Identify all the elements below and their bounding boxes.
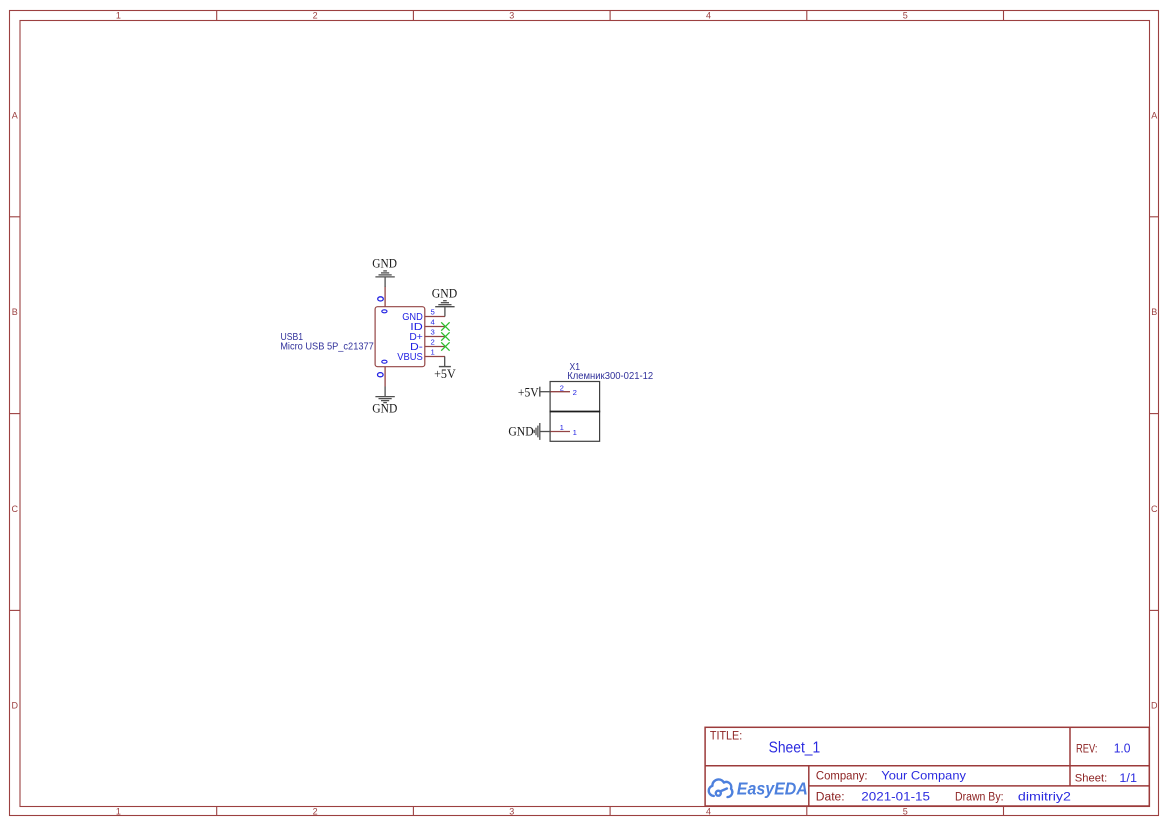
svg-text:Sheet:: Sheet: bbox=[1075, 773, 1107, 785]
USB1 pin 0 shield (top) pin name bbox=[382, 310, 387, 313]
svg-text:GND: GND bbox=[372, 256, 397, 270]
svg-text:3: 3 bbox=[430, 327, 434, 336]
svg-text:D: D bbox=[11, 701, 18, 711]
svg-text:Date:: Date: bbox=[816, 791, 845, 803]
USB1 pin 1 VBUS wire bbox=[425, 356, 445, 358]
svg-text:1: 1 bbox=[430, 347, 434, 356]
USB1 pin 2 D- wire bbox=[425, 346, 445, 348]
svg-text:D: D bbox=[1151, 701, 1158, 711]
svg-text:4: 4 bbox=[430, 317, 435, 326]
USB1 pin 0 shield (bottom) pin number bbox=[378, 373, 384, 377]
svg-text:Drawn By:: Drawn By: bbox=[955, 791, 1004, 803]
svg-text:B: B bbox=[12, 307, 18, 317]
USB1 pin 3 D+ wire bbox=[425, 336, 445, 338]
svg-text:1: 1 bbox=[116, 11, 121, 21]
wire USB1 pin 5 to ground bbox=[444, 307, 446, 317]
ground flag GND at X1 pin 1 bbox=[534, 423, 540, 440]
svg-text:1: 1 bbox=[560, 423, 564, 432]
USB1 pin 4 ID wire bbox=[425, 326, 445, 328]
ground GND at USB1 pin 5 bbox=[435, 301, 454, 307]
USB1 pin 0 shield (bottom) pin name bbox=[382, 360, 387, 363]
svg-text:TITLE:: TITLE: bbox=[710, 730, 742, 743]
connector X1 Клемник300-021-12 body bbox=[550, 382, 601, 442]
USB1 pin 5 GND wire bbox=[425, 316, 445, 318]
power flag +5V at USB1 pin 1 bbox=[439, 366, 451, 368]
svg-text:C: C bbox=[11, 504, 18, 514]
svg-text:4: 4 bbox=[706, 807, 711, 817]
svg-text:2021-01-15: 2021-01-15 bbox=[861, 789, 930, 803]
title block bbox=[705, 727, 1149, 806]
no-connect flag pin 3 bbox=[441, 332, 449, 340]
svg-text:A: A bbox=[12, 110, 18, 120]
svg-text:dimitriy2: dimitriy2 bbox=[1018, 789, 1071, 803]
svg-text:C: C bbox=[1151, 504, 1158, 514]
no-connect flag pin 4 bbox=[441, 322, 449, 330]
svg-text:5: 5 bbox=[903, 11, 908, 21]
EasyEDA logo cloud bbox=[709, 779, 733, 797]
svg-text:REV:: REV: bbox=[1076, 743, 1098, 756]
svg-text:+5V: +5V bbox=[434, 367, 456, 381]
svg-text:B: B bbox=[1151, 307, 1157, 317]
svg-text:Micro USB 5P_c21377: Micro USB 5P_c21377 bbox=[280, 342, 374, 353]
ground GND above USB1 bbox=[375, 271, 394, 287]
svg-text:2: 2 bbox=[313, 11, 318, 21]
svg-text:Клемник300-021-12: Клемник300-021-12 bbox=[567, 371, 653, 382]
svg-text:Your Company: Your Company bbox=[881, 768, 966, 782]
wire +5V flag to X1 pin 2 bbox=[540, 391, 550, 393]
svg-text:EasyEDA: EasyEDA bbox=[737, 779, 808, 799]
svg-text:1.0: 1.0 bbox=[1114, 742, 1131, 756]
USB1 pin 0 shield (top) pin number bbox=[378, 297, 384, 301]
svg-text:2: 2 bbox=[430, 337, 434, 346]
X1 pin 2 wire bbox=[551, 391, 571, 393]
svg-text:1: 1 bbox=[573, 428, 577, 437]
svg-text:VBUS: VBUS bbox=[397, 352, 423, 363]
svg-text:4: 4 bbox=[706, 11, 711, 21]
svg-text:1/1: 1/1 bbox=[1119, 771, 1137, 785]
svg-text:GND: GND bbox=[432, 287, 458, 301]
svg-text:GND: GND bbox=[508, 425, 533, 439]
svg-text:3: 3 bbox=[509, 11, 514, 21]
svg-text:5: 5 bbox=[430, 307, 434, 316]
wire GND flag to X1 pin 1 bbox=[540, 431, 550, 433]
svg-text:2: 2 bbox=[560, 383, 564, 392]
svg-text:2: 2 bbox=[573, 388, 577, 397]
svg-text:+5V: +5V bbox=[518, 385, 539, 399]
svg-text:2: 2 bbox=[313, 807, 318, 817]
USB1 pin 0 shield (bottom) wire bbox=[384, 367, 386, 387]
wire USB1 pin 1 to +5V bbox=[444, 357, 446, 367]
svg-text:Sheet_1: Sheet_1 bbox=[769, 739, 821, 756]
svg-text:A: A bbox=[1151, 110, 1157, 120]
svg-text:1: 1 bbox=[116, 807, 121, 817]
power flag +5V at X1 pin 2 bbox=[539, 387, 541, 397]
svg-text:3: 3 bbox=[509, 807, 514, 817]
svg-text:GND: GND bbox=[372, 402, 397, 416]
svg-text:5: 5 bbox=[903, 807, 908, 817]
svg-text:Company:: Company: bbox=[816, 769, 868, 782]
connector USB1 Micro USB 5P_c21377 body bbox=[375, 307, 425, 367]
no-connect flag pin 2 bbox=[441, 342, 449, 350]
USB1 pin 0 shield (top) wire bbox=[384, 287, 386, 307]
ground GND below USB1 bbox=[375, 387, 394, 403]
X1 pin 1 wire bbox=[551, 431, 571, 433]
